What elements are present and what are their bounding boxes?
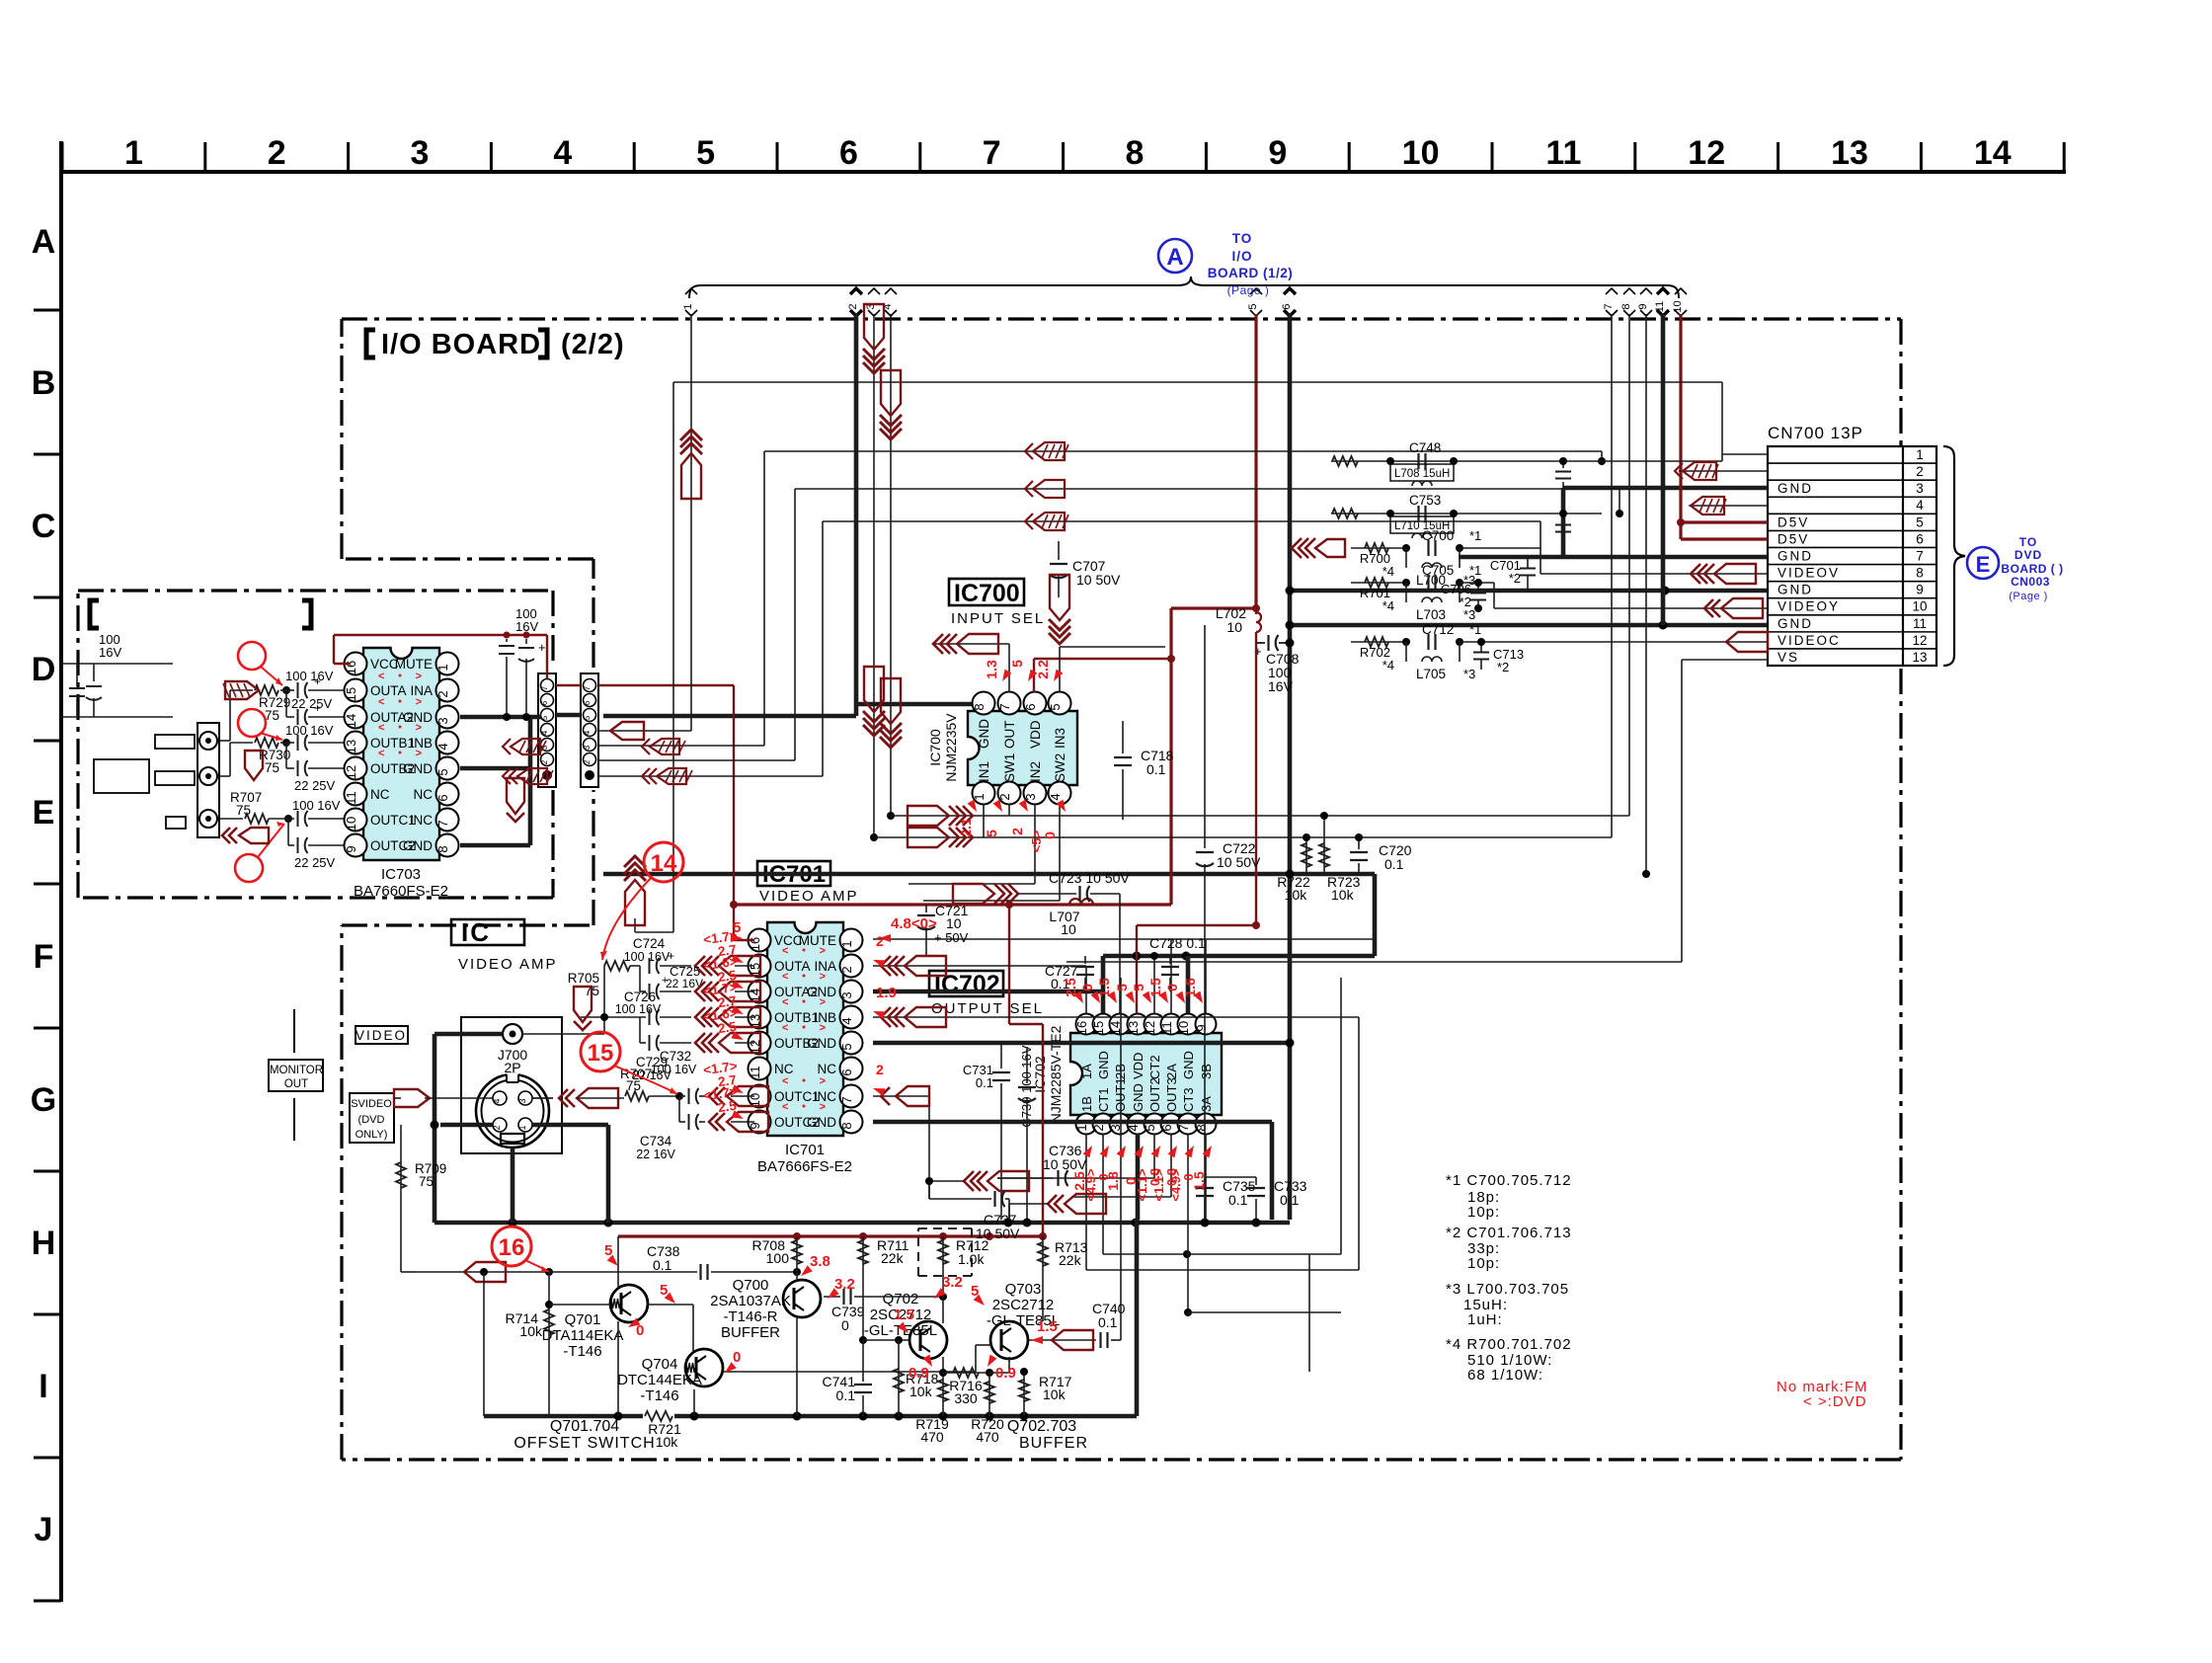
svg-text:IC700: IC700: [954, 580, 1020, 607]
svg-text:D5V: D5V: [1777, 531, 1809, 546]
svg-text:*1: *1: [1469, 622, 1481, 637]
svg-text:9: 9: [748, 1122, 762, 1129]
wire tag 1: [682, 288, 697, 316]
capacitor C718: [1122, 721, 1124, 753]
svg-text:0.1: 0.1: [653, 1257, 672, 1273]
svg-text:NC: NC: [774, 1062, 794, 1076]
capacitor C741: [862, 1340, 864, 1382]
wire VIDEOV row8: [1540, 573, 1768, 575]
capacitor row OUTA2: [285, 690, 287, 717]
svg-text:GND: GND: [807, 1115, 836, 1130]
arrow hatched IC703 outa: [225, 681, 259, 699]
svg-text:75: 75: [236, 803, 251, 818]
arrow CN row4 hatched: [1691, 497, 1724, 515]
svg-text:0.1: 0.1: [836, 1387, 856, 1403]
arrow right row848: [963, 828, 973, 847]
wire IC702 pin5 out2: [1153, 1134, 1155, 1178]
svg-text:GND: GND: [1181, 1051, 1196, 1079]
svg-text:10: 10: [1226, 619, 1242, 635]
svg-text:22 25V: 22 25V: [294, 778, 336, 793]
svg-text:>: >: [820, 971, 826, 983]
arrow INB: [881, 1007, 891, 1027]
svg-text:12: 12: [1688, 134, 1725, 172]
svg-text:NC: NC: [414, 787, 434, 802]
svg-text:2: 2: [876, 933, 884, 949]
wire tag4 down: [890, 314, 892, 816]
svg-text:22 16V: 22 16V: [636, 1148, 675, 1161]
svg-text:*2: *2: [1460, 594, 1471, 609]
svg-text:*4: *4: [1382, 598, 1394, 613]
arrow up tag1: [680, 430, 702, 440]
svg-text:*1 C700.705.712: *1 C700.705.712: [1446, 1172, 1572, 1189]
svg-text:VIDEO AMP: VIDEO AMP: [759, 888, 859, 905]
svg-text:GND: GND: [403, 838, 433, 853]
arrow hatched strip1 row1: [503, 768, 511, 784]
svg-text:11: 11: [1159, 1021, 1174, 1035]
svg-text:ONLY): ONLY): [355, 1129, 388, 1141]
svg-text:>: >: [416, 696, 422, 708]
wire CN row2 stub: [1679, 470, 1768, 472]
resistor R707 row OUTC1: [219, 818, 243, 820]
page link A circle: [1158, 239, 1192, 273]
svg-text:5: 5: [1916, 515, 1924, 529]
wire thick GND IC702 pin10: [1186, 956, 1191, 1013]
wire thick J700 din pin1: [532, 1123, 608, 1128]
connector CN700 13P: [1768, 424, 1936, 666]
svg-text:GND: GND: [403, 761, 433, 776]
wire D5V tag10 to CN700 rows 5 6: [1679, 314, 1682, 539]
wire IC700 pin1: [983, 804, 985, 837]
IC702 NJM2285V-TE2 output selector: [1032, 1014, 1222, 1135]
IC701 title box: [757, 861, 859, 905]
wire vcc IC701 pin16: [733, 905, 735, 940]
svg-text:I/O BOARD: I/O BOARD: [381, 329, 541, 360]
arrow up near 14: [624, 856, 646, 867]
svg-text:75: 75: [265, 760, 279, 775]
transistor Q702: [909, 1321, 947, 1359]
svg-text:10 50V: 10 50V: [1217, 854, 1261, 870]
svg-text:*4 R700.701.702: *4 R700.701.702: [1446, 1336, 1572, 1353]
wire IC702 pin2 down: [1102, 1134, 1104, 1254]
wire Q701 collector: [617, 1321, 619, 1416]
capacitor C713: [1473, 652, 1489, 654]
wire thick tag6 vertical: [1288, 314, 1293, 643]
svg-text:<4.9>: <4.9>: [1168, 1168, 1183, 1202]
arrow open strip2 row4: [610, 722, 644, 740]
svg-text:5: 5: [696, 134, 715, 172]
wire Q701 emitter: [617, 1236, 619, 1288]
svg-text:2: 2: [997, 793, 1012, 800]
filter net C700 L700 R700: [1351, 547, 1406, 549]
filter net C712 L705 R702: [1351, 641, 1406, 643]
wire Q703 emitter R720: [1008, 1357, 1010, 1373]
svg-text:CN700 13P: CN700 13P: [1768, 424, 1863, 442]
svg-text:5: 5: [540, 715, 549, 720]
svg-text:*3 L700.703.705: *3 L700.703.705: [1446, 1281, 1569, 1298]
svg-text:0: 0: [733, 1349, 741, 1366]
svg-text:22 25V: 22 25V: [294, 855, 336, 870]
wire svideo C pin3: [532, 1097, 553, 1099]
svg-text:+ 50V: + 50V: [934, 930, 969, 945]
arrow OUTC1: [709, 1087, 718, 1105]
wire strip pin4 row: [598, 730, 691, 732]
svg-text:-T146: -T146: [563, 1343, 601, 1360]
wire IC702 pin12: [1153, 956, 1155, 1013]
svg-text:10k: 10k: [656, 1434, 679, 1450]
svg-text:12: 12: [1143, 1021, 1157, 1035]
svg-text:CT3: CT3: [1181, 1087, 1196, 1112]
svg-text:13: 13: [1831, 134, 1868, 172]
resistor R705: [603, 966, 605, 1034]
wire VIDEOY row10: [1494, 607, 1768, 609]
arrow down tag4 upper: [880, 429, 902, 439]
svg-text:330: 330: [954, 1390, 978, 1406]
svg-text:11: 11: [344, 791, 358, 805]
wire stub 944: [634, 918, 636, 932]
wire thick GND IC702 pin15: [1101, 956, 1106, 1013]
wire D5V transistor rail: [618, 1234, 1043, 1237]
wire tag9 down: [1645, 314, 1647, 874]
svg-text:-T146: -T146: [640, 1387, 678, 1404]
svg-text:22k: 22k: [1059, 1252, 1082, 1268]
wire thick strip gnd link: [556, 713, 581, 718]
jack board dashed outline (IC703 block): [78, 591, 553, 898]
wire Q704 collector down: [693, 1389, 695, 1416]
svg-text:1.0k: 1.0k: [958, 1251, 985, 1267]
svg-text:<: <: [782, 1022, 788, 1034]
svg-text:VS: VS: [1777, 650, 1799, 665]
wire IC702 pin7 down: [1187, 1134, 1189, 1312]
svg-text:<: <: [378, 696, 384, 708]
svg-text:0: 0: [1079, 984, 1095, 991]
svg-text:7: 7: [435, 820, 450, 827]
svg-text:8: 8: [435, 845, 450, 852]
svg-text:OUTB1: OUTB1: [370, 736, 415, 751]
svg-text:>: >: [820, 945, 826, 957]
svg-text:100 16V: 100 16V: [292, 798, 341, 813]
svg-text:2: 2: [268, 134, 286, 172]
svg-text:GND: GND: [1777, 481, 1813, 496]
svg-text:10k: 10k: [1043, 1386, 1066, 1402]
arrow INA: [881, 956, 891, 976]
svg-text:3.2: 3.2: [834, 1276, 855, 1293]
svg-text:6: 6: [839, 134, 858, 172]
svg-text:Q701: Q701: [565, 1311, 601, 1328]
svg-text:4.8<0>: 4.8<0>: [891, 915, 937, 932]
svg-text:D5V: D5V: [1777, 515, 1809, 529]
svg-text:7: 7: [1176, 1124, 1191, 1131]
svg-text:9: 9: [1916, 583, 1924, 597]
wire Q702 emitter R719: [942, 1357, 944, 1416]
wire thick GND right vertical: [1373, 874, 1378, 956]
transistor Q700: [783, 1280, 821, 1317]
wire GND bottom bus J700: [434, 1221, 1290, 1226]
svg-text:4: 4: [1916, 498, 1924, 513]
svg-text:Q703: Q703: [1005, 1281, 1042, 1298]
svg-text:GND: GND: [1777, 548, 1813, 563]
svg-text:<: <: [378, 722, 384, 734]
svg-text:7: 7: [583, 685, 592, 690]
svg-text:3B: 3B: [1199, 1064, 1214, 1079]
arrow CN videoc: [1726, 632, 1768, 652]
svg-text:1: 1: [517, 1125, 527, 1130]
svg-text:GND: GND: [1131, 1083, 1145, 1112]
monitor out label: [269, 1009, 323, 1141]
capacitor C724 row OUTA: [649, 958, 651, 974]
wire IC702 pin16 input A: [873, 965, 1086, 967]
wire GND bus mid y885: [603, 872, 1375, 877]
svg-text:16: 16: [499, 1234, 525, 1261]
svg-text:3: 3: [411, 134, 430, 172]
wire vcc rail IC701 IC703: [734, 903, 1171, 906]
svg-text:C705: C705: [1422, 563, 1454, 578]
svg-text:C753: C753: [1409, 493, 1441, 508]
svg-text:VIDEOC: VIDEOC: [1777, 633, 1841, 648]
svg-text:D: D: [32, 651, 56, 688]
svg-text:15: 15: [588, 1040, 614, 1067]
capacitor C729 row OUTB2: [639, 1017, 641, 1043]
svg-text:L703: L703: [1416, 607, 1446, 622]
svg-text:8: 8: [1620, 303, 1632, 309]
wire Q701 base: [549, 1304, 610, 1306]
svg-text:VDD: VDD: [1028, 720, 1043, 749]
svg-text:NJM2235V: NJM2235V: [943, 713, 959, 782]
svg-text:+: +: [314, 701, 321, 715]
svg-text:2: 2: [1009, 828, 1025, 835]
svg-text:2: 2: [1091, 1124, 1106, 1131]
arrow left IC700 out: [933, 634, 943, 654]
wire GND row3: [1563, 486, 1768, 491]
svg-text:14: 14: [1974, 134, 2012, 172]
svg-text:75: 75: [265, 708, 279, 723]
svg-text:IC700: IC700: [927, 729, 943, 766]
svg-text:BOARD ( ): BOARD ( ): [2001, 562, 2063, 576]
svg-text:8: 8: [839, 1122, 854, 1129]
red circled 16: [492, 1227, 531, 1266]
svg-text:5: 5: [1143, 1124, 1157, 1131]
svg-text:1uH:: 1uH:: [1467, 1311, 1503, 1328]
svg-text:IN2: IN2: [1028, 761, 1043, 782]
arrow right row826: [963, 806, 973, 826]
wire GND bus transistors: [484, 1414, 643, 1419]
wire din pin4: [492, 1097, 494, 1099]
svg-text:-T146-R: -T146-R: [723, 1308, 777, 1325]
wire IC702 pin1 down: [1085, 1134, 1087, 1270]
arrow OUTB2: [695, 1033, 705, 1053]
svg-text:7: 7: [997, 703, 1012, 710]
capacitor C707: [1058, 541, 1060, 560]
svg-text:C748: C748: [1409, 440, 1441, 455]
svg-text:*2: *2: [1497, 660, 1509, 674]
arrow hatched IC703 outb: [245, 751, 263, 780]
svg-text:IN3: IN3: [1053, 728, 1067, 749]
capacitor C731: [1000, 1043, 1002, 1069]
note no mark FM / DVD: [1777, 1379, 1868, 1410]
svg-text:INPUT SEL: INPUT SEL: [951, 610, 1045, 627]
svg-text:1: 1: [972, 793, 987, 800]
svg-text:Q701.704: Q701.704: [550, 1418, 619, 1435]
svg-text:<: <: [782, 945, 788, 957]
wire thick IC701 pin5 gnd: [873, 1041, 1290, 1046]
svg-text:4: 4: [1126, 1124, 1141, 1131]
svg-text:14: 14: [651, 850, 677, 877]
svg-text:1A: 1A: [1079, 1064, 1094, 1079]
svg-text:2.2: 2.2: [1035, 660, 1051, 679]
svg-text:0.1: 0.1: [1280, 1192, 1300, 1208]
wire GND bus row9: [1290, 589, 1768, 594]
svg-text:SVIDEO: SVIDEO: [351, 1098, 392, 1110]
svg-text:(2/2): (2/2): [561, 329, 625, 360]
transistor labels Q701: [542, 1311, 624, 1360]
svg-text:16V: 16V: [515, 619, 538, 634]
resistor R709: [400, 1125, 402, 1272]
capacitor C722: [1204, 625, 1206, 848]
svg-text:H: H: [32, 1225, 56, 1262]
svg-text:GND: GND: [1777, 616, 1813, 631]
capacitor C701: [1520, 568, 1536, 570]
wire mesh row 1270: [1103, 1253, 1341, 1255]
svg-text:C: C: [32, 508, 56, 545]
wire IC700 pin7 out: [1008, 644, 1010, 692]
svg-text:13: 13: [1126, 1021, 1141, 1035]
wire Q701 to Q704: [647, 1304, 693, 1306]
svg-text:10p:: 10p:: [1467, 1204, 1500, 1221]
page link A text: [1208, 231, 1294, 297]
wire Q702 base: [863, 1339, 909, 1341]
red circled 14: [644, 842, 683, 882]
svg-text:*2: *2: [1509, 571, 1521, 586]
capacitor row OUTC2: [287, 819, 289, 845]
svg-text:1: 1: [839, 940, 854, 947]
svg-text:22 25V: 22 25V: [291, 696, 333, 711]
svg-text:1: 1: [435, 664, 450, 671]
svg-text:15: 15: [1091, 1021, 1106, 1035]
svg-text:OUT2: OUT2: [1147, 1077, 1162, 1112]
wire thick J700 din pin2: [440, 1123, 493, 1128]
wire thick IC703 gnd pins: [460, 715, 541, 720]
arrow hatched strip1 row3: [503, 739, 511, 754]
svg-text:10: 10: [1061, 921, 1076, 937]
svg-text:E: E: [1976, 552, 1991, 577]
svg-text:12: 12: [1912, 633, 1927, 648]
wire IC702 pin8 down: [1205, 1134, 1207, 1220]
svg-text:(DVD: (DVD: [358, 1114, 385, 1126]
wire D5V down to IC702 VDD: [1255, 643, 1257, 925]
svg-text:<: <: [378, 748, 384, 759]
svg-text:7: 7: [1916, 548, 1924, 563]
I/O board title: [366, 329, 625, 360]
board connector strip J2: [581, 673, 598, 787]
svg-text:MUTE: MUTE: [799, 933, 836, 948]
svg-text:I/O: I/O: [1231, 249, 1252, 264]
svg-text:8: 8: [972, 703, 987, 710]
svg-text:C724: C724: [633, 936, 666, 951]
arrow OUTA2: [695, 982, 705, 1001]
buffer caption: [1007, 1418, 1088, 1452]
svg-text:6: 6: [583, 700, 592, 705]
wire GND row7: [1459, 555, 1768, 560]
wire IC700 pin2: [1008, 804, 1010, 816]
brace right of CN700: [1943, 446, 1965, 666]
offset switch caption: [513, 1418, 655, 1452]
svg-text:16: 16: [1074, 1021, 1089, 1035]
svg-text:*1: *1: [1469, 563, 1481, 578]
capacitor C733: [1255, 1177, 1257, 1185]
wire thick IC702 pin4 gnd: [1136, 1134, 1141, 1220]
svg-text:0.1: 0.1: [1098, 1314, 1118, 1330]
jack panel circles: [197, 723, 219, 837]
filter net C748 L708: [1331, 460, 1722, 462]
svg-text:14: 14: [344, 714, 358, 728]
svg-text:1.9: 1.9: [876, 985, 897, 1001]
svg-text:5: 5: [1247, 303, 1259, 309]
wire Q700 base: [796, 1272, 798, 1281]
svg-text:5: 5: [1114, 984, 1130, 991]
svg-text:2: 2: [839, 966, 854, 973]
capacitor C708: [1256, 642, 1265, 644]
capacitor pair far left: [61, 663, 173, 665]
connector brace to I/O board 1/2: [689, 277, 1679, 298]
svg-text:IC: IC: [461, 917, 491, 947]
arrow INC: [881, 1087, 890, 1105]
arrow down IC703 out: [507, 778, 524, 814]
connector J700 2P monitor out: [461, 1017, 562, 1153]
svg-text:0.1: 0.1: [1384, 856, 1404, 872]
svg-text:22k: 22k: [881, 1250, 905, 1266]
resistor R730 row OUTB1: [219, 775, 230, 777]
svg-text:INC: INC: [410, 813, 434, 828]
wire tag1 down: [690, 314, 692, 731]
wire row457: [764, 450, 1602, 452]
arrow hatched strip2 row3: [642, 739, 650, 754]
wire strip pin1 row: [598, 775, 823, 777]
svg-text:OUTPUT SEL: OUTPUT SEL: [931, 1000, 1044, 1017]
wire tag 11: [1654, 288, 1669, 316]
svg-text:2: 2: [847, 303, 859, 309]
wire tag 3: [865, 288, 880, 316]
svideo label: [350, 1093, 394, 1143]
svg-text:470: 470: [920, 1429, 944, 1445]
wire svideo Y: [394, 1089, 430, 1107]
svg-text:10: 10: [946, 915, 962, 931]
svg-text:10: 10: [1912, 599, 1927, 614]
svg-text:2: 2: [583, 759, 592, 764]
svg-text:0: 0: [841, 1317, 849, 1333]
svg-text:0.1: 0.1: [1228, 1192, 1248, 1208]
svg-text:Q702.703: Q702.703: [1007, 1418, 1076, 1435]
svg-text:3: 3: [839, 991, 854, 998]
wire IC700 pin3: [1034, 804, 1036, 884]
svg-text:*1: *1: [1469, 528, 1481, 543]
red circled 15: [581, 1032, 620, 1071]
svg-text:4: 4: [1048, 793, 1063, 800]
arrow OUTC2: [709, 1113, 718, 1131]
svg-text:Q704: Q704: [642, 1356, 678, 1373]
svg-text:<: <: [378, 671, 384, 682]
svg-text:1.5: 1.5: [1191, 1171, 1207, 1191]
svg-text:1: 1: [124, 134, 143, 172]
arrow CN row2 hatched: [1675, 463, 1683, 479]
svg-text:6: 6: [839, 1069, 854, 1075]
arrow hatched row457: [1025, 443, 1033, 459]
arrow hatched row528: [1025, 514, 1033, 529]
filter net C705 L703 R701: [1351, 582, 1406, 584]
capacitor C738: [549, 1271, 697, 1273]
wire tag 10: [1672, 288, 1687, 316]
capacitor row OUTB2: [285, 743, 287, 768]
svg-text:MONITOR: MONITOR: [270, 1065, 323, 1076]
svg-text:5: 5: [1131, 984, 1146, 991]
